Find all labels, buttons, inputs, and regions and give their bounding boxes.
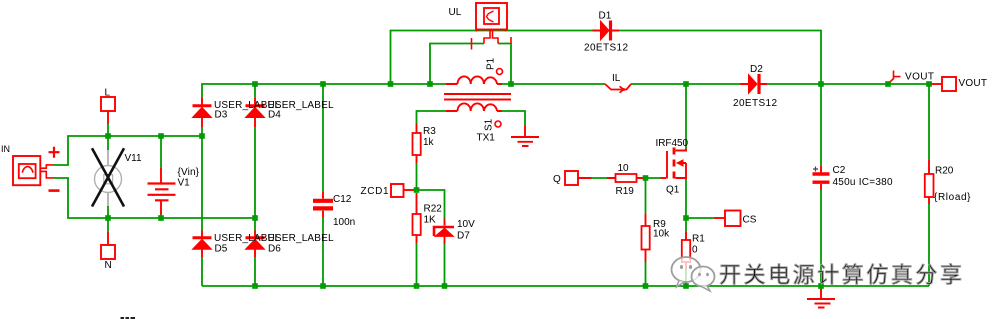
node L-wire / L port	[105, 133, 111, 139]
transformer TX1 core	[444, 94, 511, 100]
probe UL	[476, 3, 507, 32]
wire R1 column	[685, 218, 687, 286]
svg-text:IN: IN	[1, 144, 10, 154]
svg-text:R1: R1	[692, 234, 705, 245]
wire C12 column	[322, 84, 324, 286]
node bottom / R1	[683, 283, 689, 289]
svg-text:IRF450: IRF450	[656, 138, 689, 149]
wire C2 column	[820, 84, 822, 286]
wire N net bottom: source - to bridge	[54, 178, 255, 218]
svg-text:D3: D3	[215, 110, 228, 121]
svg-text:CS: CS	[743, 215, 757, 226]
node bottom / C12	[320, 283, 326, 289]
svg-text:10V: 10V	[457, 219, 475, 230]
node bottom / R9	[643, 283, 649, 289]
node L-wire / D3-D5	[199, 133, 205, 139]
node bottom / C2 ground	[818, 283, 824, 289]
node Q1 source CS	[683, 215, 689, 221]
svg-text:L: L	[105, 88, 111, 99]
svg-text:20ETS12: 20ETS12	[733, 98, 777, 109]
wire bottom rail	[202, 285, 929, 287]
transformer TX1 secondary	[446, 103, 502, 127]
wire R3 bottom to ZCD node	[416, 163, 418, 190]
node rail / primary right	[508, 81, 514, 87]
capacitor C2	[813, 166, 830, 190]
port L	[101, 97, 115, 124]
port IN	[13, 147, 60, 191]
svg-text:R19: R19	[616, 186, 635, 197]
wire secondary right to ground	[502, 111, 525, 126]
clipped text bottom left	[121, 317, 136, 319]
resistor R9	[642, 214, 650, 262]
node ZCD1	[414, 187, 420, 193]
node rail / VOUT flag	[885, 81, 891, 87]
node rail / Q1 drain	[683, 81, 689, 87]
port Q	[565, 171, 578, 185]
svg-text:TX1: TX1	[477, 133, 496, 144]
node rail / D4	[252, 81, 258, 87]
wire Q gate row	[592, 177, 661, 179]
svg-text:{Vin}: {Vin}	[178, 167, 200, 178]
svg-text:10k: 10k	[653, 229, 670, 240]
wire D5 column	[201, 136, 203, 286]
diode D3	[193, 98, 212, 127]
node bottom / R22	[414, 283, 420, 289]
zener D7	[434, 219, 454, 245]
port ZCD1	[391, 184, 414, 197]
wire main rail mid segment	[502, 83, 929, 85]
port VOUT	[929, 77, 956, 91]
resistor R3	[413, 124, 421, 164]
wire D6 column	[254, 218, 256, 286]
wire secondary left to R3	[417, 111, 447, 124]
capacitor C12	[313, 192, 333, 218]
node bottom / D7	[442, 283, 448, 289]
diode D5	[193, 231, 212, 258]
diode D6	[246, 231, 265, 258]
resistor R22	[413, 193, 421, 243]
node N-wire / N port	[105, 215, 111, 221]
svg-text:ZCD1: ZCD1	[361, 186, 389, 197]
svg-text:0: 0	[692, 245, 698, 256]
svg-text:R20: R20	[935, 166, 954, 177]
wire R9 column	[645, 178, 647, 286]
node rail / top rail left	[388, 81, 394, 87]
diode D4	[246, 98, 265, 127]
svg-text:N: N	[105, 260, 112, 271]
svg-text:D1: D1	[599, 11, 612, 22]
wire L net top: source + to bridge	[54, 136, 202, 165]
node rail / primary left	[427, 81, 433, 87]
node rail / C2 top	[818, 81, 824, 87]
wire Q1 source	[685, 179, 687, 219]
disabled source V11	[92, 148, 124, 206]
diode D2	[740, 74, 767, 94]
svg-text:V1: V1	[178, 178, 191, 189]
port CS	[714, 211, 741, 227]
resistor R20	[925, 160, 934, 204]
wire top rail right + down to C2 node	[619, 31, 821, 85]
ground C2	[807, 286, 835, 308]
svg-text:{Rload}: {Rload}	[934, 192, 971, 203]
node N-wire / V1 bottom	[158, 215, 164, 221]
node L-wire / V1 top	[158, 133, 164, 139]
node rail / R20 top	[926, 81, 932, 87]
svg-text:1k: 1k	[423, 137, 435, 148]
probe UL pins to primary	[472, 30, 512, 50]
svg-text:开关电源计算仿真分享: 开关电源计算仿真分享	[719, 263, 962, 288]
wire V1 column top	[160, 136, 162, 168]
mosfet Q1	[661, 148, 687, 179]
ground TX1 secondary	[511, 126, 539, 147]
svg-text:10: 10	[618, 163, 630, 174]
diode D1	[593, 21, 620, 41]
svg-text:D7: D7	[457, 231, 470, 242]
svg-text:R22: R22	[424, 204, 443, 215]
wire Q1 drain	[685, 84, 687, 149]
svg-text:IL: IL	[612, 73, 621, 84]
wire N port stub	[107, 218, 109, 232]
node N-wire / D4-D6	[252, 215, 258, 221]
probe VOUT label flag	[888, 71, 901, 85]
svg-text:C12: C12	[333, 194, 352, 205]
svg-text:VOUT: VOUT	[959, 78, 988, 89]
svg-text:Q: Q	[553, 174, 561, 185]
wire V1 column bottom	[160, 214, 162, 218]
svg-text:Q1: Q1	[666, 185, 680, 196]
port N	[101, 232, 115, 259]
wire UL bracket left	[430, 44, 484, 85]
svg-text:R3: R3	[423, 126, 436, 137]
wire R22 bottom	[416, 243, 418, 286]
wire R20 column	[928, 84, 930, 286]
C2 plus mark	[813, 167, 818, 172]
wire V11 column stubs	[107, 136, 109, 218]
wire D3 column	[202, 84, 446, 136]
wire ZCD node to D7	[419, 190, 445, 219]
svg-text:D5: D5	[215, 244, 228, 255]
wire L port stub	[107, 123, 109, 136]
svg-text:UL: UL	[449, 7, 462, 18]
svg-text:C2: C2	[833, 165, 846, 176]
svg-text:D6: D6	[268, 244, 281, 255]
source V1 battery	[148, 168, 176, 215]
wire D7 bottom	[444, 244, 446, 286]
resistor R1	[682, 232, 690, 270]
svg-text:VOUT: VOUT	[905, 72, 934, 83]
svg-text:D2: D2	[750, 64, 763, 75]
svg-text:20ETS12: 20ETS12	[584, 43, 628, 54]
svg-text:S1: S1	[484, 118, 495, 131]
svg-text:V11: V11	[125, 153, 142, 164]
svg-text:D4: D4	[268, 110, 281, 121]
wire top rail left + down	[391, 31, 593, 85]
wire D4 column	[254, 84, 256, 218]
node gate R19-R9	[643, 175, 649, 181]
node rail / C12	[320, 81, 326, 87]
svg-text:100n: 100n	[333, 217, 355, 228]
watermark wechat logo	[672, 257, 715, 291]
wire UL bracket right	[498, 44, 511, 85]
svg-text:P1: P1	[486, 57, 497, 70]
transformer TX1 primary	[446, 69, 503, 85]
wire CS tap	[686, 217, 714, 219]
svg-text:450u IC=380: 450u IC=380	[833, 177, 893, 188]
resistor R19	[578, 174, 646, 182]
svg-text:1K: 1K	[424, 215, 437, 226]
probe IL	[605, 84, 631, 93]
node bottom / D6	[252, 283, 258, 289]
svg-text:USER_LABEL: USER_LABEL	[268, 233, 334, 244]
